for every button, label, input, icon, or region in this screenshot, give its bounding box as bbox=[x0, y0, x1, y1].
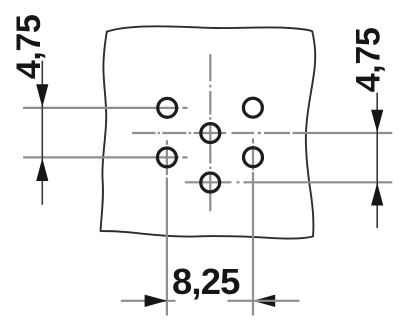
hole B top-right bbox=[243, 98, 262, 117]
svg-text:4,75: 4,75 bbox=[10, 15, 48, 80]
centerline V2 / extension line x=167 through hole D down to 8,25 dimension bbox=[166, 140, 168, 315]
left dimension arrow down bbox=[36, 84, 48, 107]
bottom dimension 8,25 line right tail bbox=[228, 300, 300, 302]
hole E lower-right bbox=[244, 148, 263, 167]
bottom dimension arrow pointing right bbox=[145, 295, 168, 307]
hole F bottom-center bbox=[201, 173, 220, 192]
hole D lower-left bbox=[157, 148, 176, 167]
panel outline (broken-out section, wavy square) bbox=[101, 26, 316, 238]
svg-text:8,25: 8,25 bbox=[172, 261, 240, 302]
right dimension arrow down bbox=[371, 110, 383, 133]
right dimension line 4,75 (vertical shaft) bbox=[376, 93, 378, 228]
hole C center bbox=[201, 124, 220, 143]
left dimension arrow up bbox=[36, 158, 48, 181]
bottom dimension 8,25 line left tail bbox=[121, 300, 176, 302]
centerline H3 middle row through center hole C, extends to right dimension bbox=[132, 132, 392, 134]
centerline H2 through hole D (second row) + left dim extension bbox=[23, 156, 187, 158]
centerline V3 / extension line x=253 through hole E down to 8,25 dimension bbox=[252, 139, 254, 316]
left dimension line 4,75 (vertical shaft) bbox=[41, 61, 43, 205]
right dimension arrow up bbox=[371, 183, 383, 206]
bottom dimension arrow pointing left bbox=[253, 295, 276, 307]
hole A top-left bbox=[158, 98, 177, 117]
centerline V1 vertical axis x=210 through holes C and F bbox=[209, 54, 211, 211]
centerline H4 bottom-center row through hole F, extends to right dimension bbox=[185, 181, 392, 183]
centerline H1 through hole A (top-left row) + left dim extension bbox=[23, 107, 187, 109]
svg-text:4,75: 4,75 bbox=[350, 28, 388, 93]
